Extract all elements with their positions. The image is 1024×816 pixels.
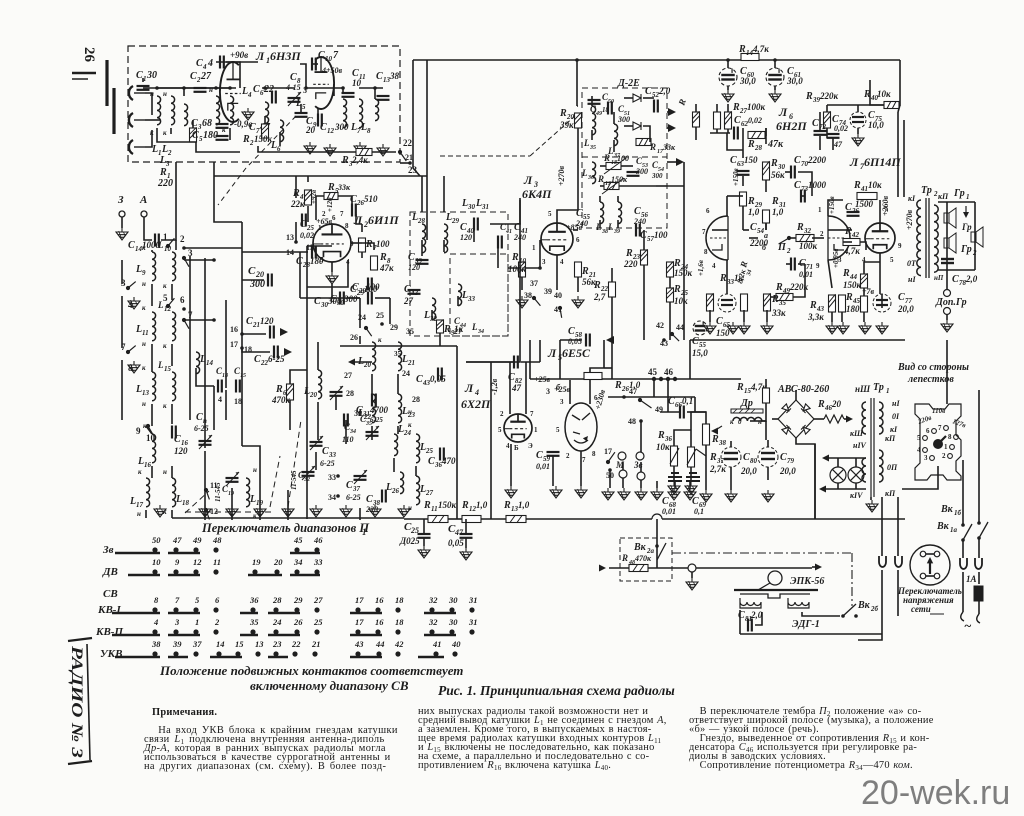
wire: [389, 298, 391, 324]
svg-text:+1,6в: +1,6в: [697, 260, 705, 276]
wire: [690, 430, 692, 447]
svg-text:43: 43: [354, 639, 364, 649]
resistor R25: [667, 287, 674, 302]
figure caption: [438, 683, 675, 699]
svg-text:41: 41: [554, 305, 562, 314]
svg-text:26: 26: [293, 617, 303, 627]
svg-text:Др: Др: [740, 398, 753, 409]
arrow disc: [927, 557, 933, 563]
wire: [421, 176, 423, 212]
svg-text:35: 35: [589, 145, 596, 151]
svg-text:нIV: нIV: [853, 441, 867, 450]
coil: [375, 99, 379, 121]
capacitor C31: [372, 394, 376, 407]
resistor R22: [609, 282, 616, 297]
resistor R45b: [861, 296, 868, 312]
svg-text:6-25: 6-25: [320, 459, 335, 468]
resistor R10: [519, 261, 526, 277]
svg-text:R: R: [327, 182, 335, 193]
wire: [837, 458, 839, 467]
wire: [315, 452, 317, 470]
wire: [727, 129, 729, 133]
wire: [640, 462, 642, 472]
ground: [668, 488, 680, 500]
capacitor C61: [766, 68, 784, 86]
svg-text:R: R: [719, 273, 727, 284]
svg-text:С: С: [196, 412, 203, 423]
svg-text:н: н: [142, 400, 146, 408]
svg-text:ЭДГ-1: ЭДГ-1: [792, 619, 820, 630]
svg-text:30,0: 30,0: [739, 76, 756, 86]
svg-text:+230в: +230в: [593, 388, 607, 410]
svg-text:R: R: [736, 382, 744, 393]
svg-text:Переключатель диапазонов П: Переключатель диапазонов П: [201, 521, 370, 535]
svg-text:510: 510: [364, 194, 378, 204]
resistor R18: [606, 163, 621, 170]
svg-text:Л: Л: [523, 173, 533, 187]
capacitor C29: [368, 292, 372, 305]
wire: [611, 297, 613, 340]
svg-text:н: н: [758, 418, 762, 426]
wire: [519, 198, 521, 310]
svg-text:17: 17: [355, 595, 364, 605]
jack pickup: [688, 564, 696, 572]
wire 13: [295, 222, 297, 242]
svg-text:17: 17: [604, 447, 612, 456]
ground: [668, 482, 680, 494]
notes column 2: [418, 707, 673, 770]
resistor R21: [575, 262, 582, 277]
capacitor C53: [627, 172, 640, 176]
wire: [264, 116, 266, 124]
ground: [769, 90, 781, 102]
capacitor C62: [734, 127, 738, 140]
svg-text:32: 32: [428, 595, 438, 605]
svg-text:R: R: [503, 500, 511, 511]
svg-text:22: 22: [291, 639, 301, 649]
capacitor C77 dashed can: [873, 294, 891, 312]
svg-text:Э: Э: [528, 442, 533, 450]
wire: [619, 185, 656, 187]
wire agc3: [667, 161, 680, 163]
wire y105 bus: [827, 104, 884, 106]
dashed diagonal tuning link: [246, 116, 296, 168]
wire: [899, 60, 900, 105]
resistor R38: [703, 424, 710, 445]
svg-text:Л: Л: [547, 346, 557, 360]
wire 2 right: [184, 247, 242, 249]
wire: [740, 633, 882, 635]
wire: [974, 202, 976, 270]
svg-text:7: 7: [582, 456, 586, 464]
voltage selector plate: [915, 404, 961, 480]
capacitor C79 dashed can: [758, 447, 778, 467]
wire: [705, 445, 707, 490]
wire: [242, 348, 270, 352]
svg-text:C: C: [249, 122, 256, 133]
coil L28: [422, 224, 426, 253]
svg-text:10к: 10к: [656, 442, 670, 452]
wire: [290, 370, 307, 376]
svg-text:R: R: [242, 134, 250, 145]
svg-text:14: 14: [206, 359, 214, 367]
wire: [145, 510, 147, 518]
wire: [279, 132, 281, 146]
capacitor C16: [172, 426, 176, 439]
wire: [184, 319, 214, 321]
arrow R38: [711, 428, 718, 435]
svg-text:15: 15: [240, 373, 246, 379]
capacitor C39: [416, 260, 429, 264]
svg-text:33: 33: [328, 473, 336, 482]
svg-text:29: 29: [293, 595, 303, 605]
ground: [725, 490, 737, 502]
arrow: [668, 124, 676, 132]
capacitor C52: [654, 100, 658, 113]
svg-text:100к: 100к: [508, 264, 527, 274]
wire: [622, 478, 624, 488]
wire: [767, 467, 769, 480]
wire: [171, 466, 173, 478]
svg-text:L: L: [471, 322, 478, 332]
wire: [258, 146, 356, 152]
wire C72 up: [819, 112, 821, 131]
jacks M 3V: [618, 452, 626, 460]
wire: [938, 201, 975, 203]
svg-text:к: к: [408, 421, 412, 429]
ground: [738, 322, 750, 334]
wire: [307, 176, 309, 182]
svg-text:0I: 0I: [892, 412, 900, 421]
resistor R32: [796, 235, 814, 242]
svg-text:47к: 47к: [379, 263, 394, 273]
svg-text:27: 27: [425, 489, 434, 497]
svg-text:+270в: +270в: [557, 165, 566, 186]
svg-text:+90в: +90в: [230, 50, 248, 60]
wire: [352, 361, 372, 363]
IF transformer dashed box 1: [410, 212, 508, 336]
svg-text:Положение подвижных контакто: Положение подвижных контактов соответств…: [159, 663, 463, 678]
resistor R37: [688, 447, 695, 467]
rectifier bridge ABC: [778, 400, 814, 438]
svg-text:16: 16: [375, 595, 384, 605]
svg-text:н: н: [142, 280, 146, 288]
capacitor C26: [352, 204, 356, 217]
wire: [184, 259, 214, 261]
wire: [192, 120, 194, 128]
svg-text:C: C: [253, 84, 260, 95]
svg-text:11: 11: [213, 557, 221, 567]
arrow gnd: [963, 212, 969, 218]
svg-text:R: R: [732, 102, 740, 113]
svg-text:20: 20: [831, 399, 842, 409]
svg-text:C: C: [692, 336, 699, 347]
wire: [490, 362, 492, 519]
wire: [643, 97, 654, 99]
capacitor C50: [608, 102, 612, 115]
wire: [622, 462, 624, 470]
wire: [978, 601, 980, 614]
wire: [216, 62, 240, 88]
svg-text:C: C: [346, 480, 353, 491]
contact 44: [670, 332, 679, 341]
wire: [559, 340, 561, 379]
wire antenna bot: [145, 130, 152, 147]
wire: [300, 64, 306, 88]
svg-text:30: 30: [448, 617, 458, 627]
svg-text:ДВ: ДВ: [102, 566, 118, 578]
svg-text:4+50в: 4+50в: [321, 66, 343, 75]
resistor R45: [839, 295, 846, 312]
svg-text:21: 21: [405, 153, 413, 162]
wire: [801, 195, 805, 197]
svg-text:C: C: [192, 130, 199, 141]
EDG coil right: [788, 598, 809, 608]
wire: [590, 368, 604, 404]
wire: [742, 128, 744, 158]
svg-text:н: н: [142, 340, 146, 348]
svg-text:R: R: [676, 98, 688, 108]
contact: [182, 318, 189, 329]
svg-text:37: 37: [352, 485, 361, 493]
wire: [855, 483, 857, 489]
ground: [418, 546, 430, 558]
wire: [317, 108, 319, 120]
svg-text:А: А: [139, 194, 147, 206]
wire: [897, 497, 899, 556]
contact 9: [146, 424, 153, 435]
wire C30b: [347, 297, 360, 299]
resistor R39: [824, 111, 831, 128]
capacitor C43: [438, 368, 442, 381]
svg-text:R: R: [603, 153, 610, 163]
svg-text:4: 4: [153, 617, 158, 627]
wire: [225, 300, 227, 388]
svg-text:R: R: [771, 196, 779, 207]
wire C66: [660, 411, 680, 413]
wire: [226, 61, 258, 63]
wire: [431, 310, 433, 320]
svg-text:+120: +120: [326, 197, 334, 212]
resistor R36: [671, 446, 678, 466]
capacitor C12: [318, 114, 322, 127]
svg-text:5: 5: [548, 210, 552, 218]
ground: [837, 322, 849, 334]
svg-text:C: C: [290, 72, 297, 83]
tube half b: [313, 57, 334, 109]
svg-text:16: 16: [230, 325, 238, 334]
wire: [371, 426, 373, 440]
svg-text:7: 7: [340, 210, 344, 218]
capacitor C74: [827, 134, 840, 138]
svg-text:R: R: [845, 292, 853, 303]
notes heading: [152, 708, 404, 717]
Vk2a dashed box: [620, 538, 672, 581]
arrow R46: [846, 416, 853, 423]
wire: [371, 374, 373, 394]
capacitor C63: [737, 171, 750, 175]
second IF dashed box: [450, 254, 508, 336]
svg-text:R: R: [625, 248, 633, 259]
wire: [312, 63, 318, 65]
capacitor C28: [312, 246, 316, 259]
svg-text:300: 300: [651, 172, 663, 180]
wire: [241, 222, 243, 430]
wire: [171, 404, 173, 424]
svg-text:37: 37: [192, 639, 202, 649]
arrow: [676, 158, 684, 166]
svg-text:22: 22: [403, 138, 413, 148]
svg-text:нI: нI: [892, 399, 900, 408]
wire: [287, 490, 289, 520]
svg-text:38: 38: [524, 291, 532, 300]
contact 41: [558, 306, 562, 318]
wire: [837, 483, 839, 489]
wire: [591, 96, 593, 106]
wire: [765, 223, 767, 230]
resistor R13: [506, 516, 526, 523]
wire: [689, 340, 691, 379]
svg-text:к: к: [730, 418, 734, 426]
wire: [306, 428, 308, 519]
svg-text:Вк: Вк: [857, 600, 871, 611]
svg-text:кП: кП: [885, 489, 896, 498]
svg-text:14: 14: [286, 248, 294, 257]
wire sel bottom: [902, 466, 938, 489]
svg-text:68: 68: [202, 118, 212, 129]
svg-text:80: 80: [750, 457, 758, 465]
wire: [423, 538, 425, 546]
svg-text:29: 29: [390, 323, 398, 332]
svg-text:9: 9: [816, 262, 820, 270]
svg-text:R: R: [649, 142, 656, 152]
wire: [242, 251, 308, 253]
wire: [669, 302, 671, 340]
svg-text:R: R: [747, 139, 755, 150]
varcap C32: [302, 472, 315, 476]
svg-text:28: 28: [754, 144, 763, 152]
coil L7: [343, 99, 347, 128]
ground: [377, 144, 389, 156]
ground: [369, 505, 381, 517]
svg-text:35: 35: [249, 617, 259, 627]
svg-text:L: L: [595, 222, 602, 232]
ground: [704, 322, 716, 334]
wire: [802, 612, 840, 616]
coil L19: [246, 478, 250, 507]
wire: [591, 130, 593, 140]
wire: [577, 128, 579, 160]
svg-text:42: 42: [851, 231, 860, 239]
svg-text:56к: 56к: [771, 170, 785, 180]
watermark 20-wek.ru: [861, 774, 1010, 813]
wire: [359, 336, 361, 344]
wire: [577, 277, 579, 292]
svg-text:2,0: 2,0: [965, 274, 978, 284]
wire: [938, 269, 975, 271]
svg-text:C: C: [191, 118, 198, 129]
svg-text:41: 41: [432, 639, 442, 649]
wire: [814, 237, 824, 239]
svg-text:R: R: [709, 452, 717, 463]
capacitor C5: [216, 136, 229, 140]
wire: [340, 345, 457, 347]
wire: [183, 88, 185, 96]
wire: [121, 360, 123, 420]
svg-text:L: L: [607, 222, 614, 232]
svg-text:R: R: [379, 252, 387, 263]
capacitor C9: [295, 113, 308, 117]
svg-text:10: 10: [352, 78, 362, 88]
svg-text:R: R: [796, 222, 804, 233]
wire: [510, 444, 512, 486]
wire: [490, 200, 520, 224]
arrow C22: [284, 348, 292, 356]
wire: [604, 367, 612, 369]
svg-text:18: 18: [182, 499, 190, 507]
svg-text:2,4к: 2,4к: [351, 155, 368, 165]
capacitor C59: [547, 452, 560, 456]
svg-text:40: 40: [451, 639, 461, 649]
svg-text:10: 10: [152, 557, 161, 567]
svg-text:нП: нП: [934, 274, 944, 282]
ground: [722, 90, 734, 102]
ground: [866, 500, 878, 512]
wire: [855, 458, 857, 467]
svg-text:C: C: [692, 496, 699, 507]
svg-text:7: 7: [530, 410, 534, 418]
svg-text:39: 39: [544, 287, 552, 296]
svg-text:5: 5: [163, 293, 168, 303]
wire: [557, 210, 578, 223]
wire: [727, 133, 743, 150]
wire: [426, 60, 428, 212]
svg-text:27: 27: [200, 71, 212, 82]
wire: [204, 451, 206, 520]
wire: [415, 466, 417, 476]
svg-text:6Е5С: 6Е5С: [562, 346, 591, 360]
capacitor C76: [847, 212, 860, 216]
contact: [126, 282, 136, 291]
wire: [683, 162, 685, 340]
svg-text:10к: 10к: [877, 89, 891, 99]
capacitor C34: [344, 414, 348, 427]
svg-text:33: 33: [328, 451, 337, 459]
svg-text:33: 33: [467, 295, 476, 303]
svg-text:C: C: [536, 450, 543, 461]
svg-text:R: R: [853, 180, 861, 191]
svg-text:47: 47: [172, 535, 182, 545]
svg-text:10,0: 10,0: [868, 120, 884, 130]
wire: [465, 538, 467, 548]
svg-text:16: 16: [144, 461, 152, 469]
wire: [317, 342, 319, 370]
ground: [398, 505, 410, 517]
svg-text:20,0: 20,0: [740, 466, 757, 476]
wire: [609, 470, 611, 488]
svg-text:18: 18: [222, 373, 228, 379]
wire: [962, 572, 964, 612]
svg-text:49: 49: [192, 535, 202, 545]
svg-text:6-25: 6-25: [346, 493, 361, 502]
svg-text:4,7к: 4,7к: [843, 246, 860, 256]
wire: [798, 263, 805, 265]
coil L39: [618, 202, 622, 224]
capacitor C22: [274, 346, 278, 359]
ground: [128, 361, 140, 373]
svg-text:C: C: [734, 115, 741, 126]
svg-text:20: 20: [255, 270, 264, 279]
